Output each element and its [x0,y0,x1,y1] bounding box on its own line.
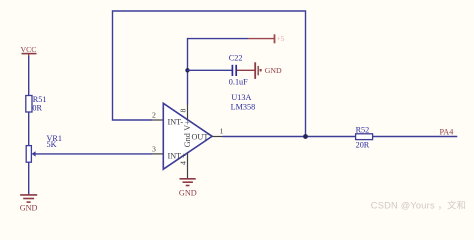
wire VCC to R51 [28,56,30,96]
svg-text:LM358: LM358 [231,102,256,111]
svg-text:OUT: OUT [192,132,209,141]
svg-text:GND: GND [265,66,282,75]
svg-text:8: 8 [178,108,187,112]
op-amp U13A [163,103,212,169]
wire feedback loop (pin2 left, up, right, down to output) [113,11,306,137]
svg-text:GND: GND [20,203,38,212]
svg-text:C22: C22 [229,54,243,63]
pin 8 stub [187,105,189,120]
svg-text:1: 1 [220,127,224,136]
wire red segment to +5 bar [248,38,274,40]
designator U13A / LM358 [231,93,256,111]
wire pin8 up and right to +5 [188,39,249,105]
power flag VCC [20,45,36,57]
wire junction to C22 [188,69,232,71]
wire R51 to VR1 [28,112,30,146]
svg-text:INT+: INT+ [168,152,187,161]
ground (left) [20,195,38,212]
svg-text:+5: +5 [276,34,284,43]
potentiometer VR1 [26,134,62,162]
wire output to R52 [223,136,356,138]
svg-text:U13A: U13A [231,93,251,102]
svg-text:20R: 20R [356,140,370,149]
pin 3 stub [152,153,163,155]
junction output/feedback [303,134,308,139]
svg-text:V+: V+ [183,120,192,131]
svg-text:0R: 0R [32,103,42,112]
svg-text:PA4: PA4 [440,127,454,136]
wire R52 to PA4 [373,136,458,138]
ground (right, below op-amp) [179,179,197,198]
svg-text:Gnd: Gnd [183,133,192,147]
svg-text:2: 2 [152,111,156,120]
wire C22 to GND flag (red) [237,69,255,71]
capacitor C22 [229,54,248,87]
svg-text:0.1uF: 0.1uF [229,78,248,87]
pin 1 stub [212,136,222,138]
power flag +5 [275,34,285,43]
resistor R52 [356,126,373,150]
svg-text:4: 4 [178,161,187,165]
svg-text:3: 3 [152,145,156,154]
svg-text:R52: R52 [356,126,370,135]
wire wiper to pin 3 [35,153,152,155]
wire VR1 to GND [28,162,30,195]
resistor R51 [26,95,47,113]
junction on V+ rail [185,68,189,72]
svg-text:5K: 5K [47,140,57,149]
svg-text:INT-: INT- [168,117,184,126]
pin 4 stub [187,153,189,179]
svg-text:CSDN @Yours ，文和: CSDN @Yours ，文和 [371,200,466,211]
power flag GND (bar style) [255,62,282,79]
svg-text:GND: GND [179,188,197,197]
pin 2 stub [152,119,163,121]
